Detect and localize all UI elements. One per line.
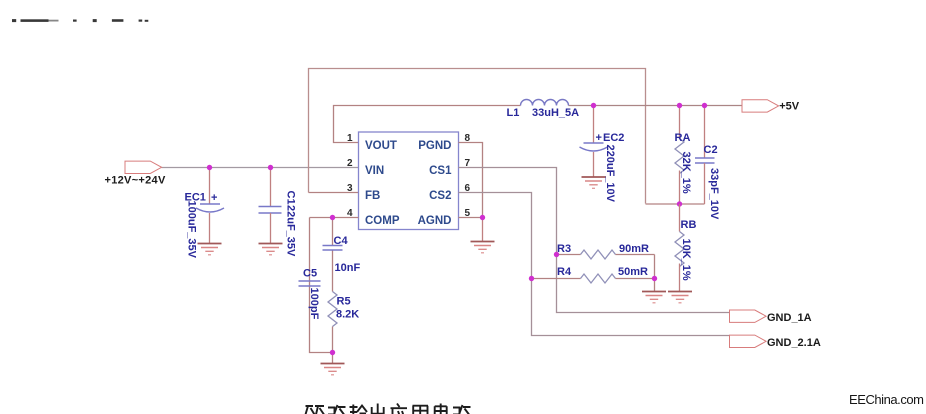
wire VIN net	[162, 167, 359, 169]
svg-text:CS2: CS2	[429, 190, 451, 202]
caption 双路输出应用电路 (cropped at bottom)	[306, 404, 471, 414]
svg-text:+: +	[596, 132, 602, 144]
svg-text:R4: R4	[557, 266, 572, 278]
wire C5 branch	[310, 218, 333, 353]
junction EC1/VIN	[207, 165, 212, 170]
svg-text:100uF_35V: 100uF_35V	[186, 201, 198, 259]
capacitor C5	[299, 268, 321, 320]
svg-text:8.2K: 8.2K	[336, 309, 359, 321]
stray text fragments top-left	[12, 19, 148, 22]
svg-text:+: +	[211, 192, 217, 204]
junction R3 left	[554, 252, 559, 257]
resistor R5	[328, 292, 359, 327]
junction AGND node	[480, 215, 485, 220]
svg-text:3: 3	[347, 183, 353, 194]
wire R3/R4 right to ground	[654, 255, 656, 292]
svg-text:AGND: AGND	[418, 215, 452, 227]
junction RA top	[677, 103, 682, 108]
junction COMP node	[330, 215, 335, 220]
resistor RB	[675, 204, 696, 292]
IC U1 box	[359, 132, 459, 230]
wire VOUT rail	[334, 106, 521, 143]
svg-text:PGND: PGND	[418, 140, 451, 152]
svg-text:EEChina.com: EEChina.com	[849, 392, 924, 407]
svg-text:EC2: EC2	[603, 132, 624, 144]
junction C2 top	[702, 103, 707, 108]
svg-text:+12V~+24V: +12V~+24V	[105, 175, 166, 187]
svg-text:32K_1%: 32K_1%	[680, 152, 692, 194]
junction RA bottom / FB tap	[677, 201, 682, 206]
capacitor C4	[323, 235, 361, 274]
svg-text:2: 2	[347, 158, 353, 169]
port GND_1A	[730, 310, 812, 324]
capacitor C1	[259, 168, 297, 258]
svg-text:R5: R5	[337, 296, 351, 308]
svg-text:220uF_10V: 220uF_10V	[604, 145, 616, 203]
ground (EC1)	[198, 244, 222, 255]
svg-text:FB: FB	[365, 190, 380, 202]
svg-text:1: 1	[347, 133, 353, 144]
capacitor EC2	[580, 106, 625, 203]
resistor R4	[532, 266, 655, 283]
ground (C1)	[259, 244, 283, 255]
svg-text:100pF: 100pF	[308, 288, 320, 320]
wire COMP node	[310, 217, 359, 219]
ground (C5/R5 node)	[321, 364, 345, 375]
port +12V~+24V	[105, 161, 166, 186]
svg-text:22uF_35V: 22uF_35V	[285, 205, 297, 257]
ground (R3/R4)	[642, 292, 666, 303]
svg-text:50mR: 50mR	[618, 266, 648, 278]
junction C5 bottom node	[330, 350, 335, 355]
ground (EC2)	[582, 177, 606, 188]
svg-text:L1: L1	[507, 107, 520, 119]
inductor L1	[507, 100, 580, 120]
svg-text:C1: C1	[285, 191, 297, 205]
resistor R3	[557, 243, 655, 259]
wire CS1 to GND_1A	[459, 168, 730, 313]
svg-text:33uH_5A: 33uH_5A	[532, 107, 579, 119]
svg-text:GND_2.1A: GND_2.1A	[767, 337, 821, 349]
resistor RA	[675, 106, 693, 205]
svg-text:C4: C4	[334, 235, 349, 247]
port GND_2.1A	[730, 335, 821, 349]
capacitor C2	[695, 106, 720, 221]
wire PGND/AGND to ground	[459, 143, 483, 218]
ground (AGND/PGND)	[471, 242, 495, 253]
capacitor EC1	[185, 168, 225, 259]
wire CS2 to GND_2.1A	[459, 193, 730, 336]
wire C4/R5 branch	[332, 218, 334, 246]
svg-text:RA: RA	[675, 132, 691, 144]
svg-text:10K_1%: 10K_1%	[680, 239, 692, 281]
svg-text:COMP: COMP	[365, 215, 400, 227]
svg-text:R3: R3	[557, 243, 571, 255]
svg-text:90mR: 90mR	[619, 243, 649, 255]
junction R4 left	[529, 276, 534, 281]
svg-text:+5V: +5V	[779, 100, 800, 112]
svg-text:VIN: VIN	[365, 165, 384, 177]
svg-text:CS1: CS1	[429, 165, 452, 177]
port +5V	[742, 100, 800, 113]
ground (RB)	[668, 292, 692, 303]
svg-text:C5: C5	[303, 268, 317, 280]
wire FB loop (VOUT sense)	[309, 69, 646, 204]
wire FB stub to pin 3	[309, 192, 359, 194]
svg-text:33pF_10V: 33pF_10V	[708, 168, 720, 220]
svg-text:10nF: 10nF	[335, 262, 361, 274]
junction EC2/rail	[591, 103, 596, 108]
junction C1/VIN	[268, 165, 273, 170]
wire divider tap	[646, 203, 705, 205]
svg-text:GND_1A: GND_1A	[767, 312, 812, 324]
junction R3/R4 right	[652, 276, 657, 281]
svg-text:RB: RB	[681, 219, 697, 231]
svg-text:VOUT: VOUT	[365, 140, 397, 152]
svg-text:C2: C2	[704, 144, 718, 156]
